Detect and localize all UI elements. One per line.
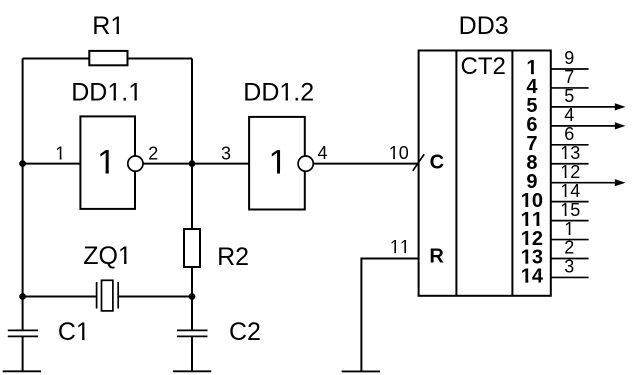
- svg-text:11: 11: [390, 237, 410, 257]
- inversion bubble DD1.2 output pin 4: [298, 156, 313, 171]
- svg-text:C1: C1: [58, 318, 90, 346]
- svg-text:4: 4: [564, 105, 574, 125]
- DD3 output row 14 (pin 3): [521, 257, 589, 288]
- DD3 output row 1 (pin 9): [526, 48, 588, 79]
- DD3 output row 6 (pin 4): [526, 105, 625, 136]
- svg-text:R: R: [429, 246, 444, 268]
- svg-text:13: 13: [560, 143, 580, 163]
- svg-text:R2: R2: [217, 243, 249, 271]
- ground (C1): [3, 370, 41, 372]
- svg-text:1: 1: [97, 144, 116, 182]
- svg-text:DD1.1: DD1.1: [71, 78, 142, 106]
- DD3 output row 5 (pin 5): [526, 86, 625, 117]
- wire DD1.2 pin 4 to DD3 pin 10 C input: [313, 163, 418, 165]
- capacitor C2: [177, 318, 261, 371]
- DD3 output row 9 (pin 12): [526, 162, 625, 193]
- svg-text:CT2: CT2: [461, 53, 506, 80]
- svg-text:1: 1: [268, 144, 287, 182]
- wire crystal net right: [118, 296, 192, 298]
- svg-text:1: 1: [564, 219, 574, 239]
- svg-text:5: 5: [564, 86, 574, 106]
- DD3 output row 10 (pin 14): [521, 181, 589, 212]
- svg-text:10: 10: [389, 143, 409, 163]
- svg-text:12: 12: [560, 162, 580, 182]
- logic gate DD1.2 (inverter): [243, 78, 314, 209]
- svg-text:2: 2: [148, 144, 158, 164]
- svg-text:3: 3: [564, 257, 574, 277]
- junction node: right rail / gate output net: [189, 160, 196, 167]
- svg-text:3: 3: [221, 144, 231, 164]
- svg-text:DD3: DD3: [459, 12, 509, 40]
- svg-text:6: 6: [564, 124, 574, 144]
- counter DD3 box: [419, 51, 551, 296]
- svg-text:ZQ1: ZQ1: [83, 242, 132, 270]
- svg-text:2: 2: [564, 238, 574, 258]
- wire DD3 R pin 11 to ground: [361, 259, 418, 371]
- wire top net through R1: [23, 58, 192, 60]
- DD3 output row 8 (pin 13): [526, 143, 588, 174]
- capacitor C1: [8, 318, 90, 371]
- svg-text:1: 1: [55, 143, 65, 163]
- inversion bubble DD1.1 output pin 2: [128, 156, 143, 171]
- crystal resonator ZQ1: [83, 242, 132, 311]
- junction node: left rail / input net: [19, 160, 26, 167]
- DD3 output row 11 (pin 15): [521, 200, 589, 231]
- wire crystal net left: [23, 296, 97, 298]
- svg-text:C: C: [430, 152, 444, 174]
- dynamic input slash on C pin: [413, 154, 424, 171]
- svg-text:R1: R1: [92, 12, 124, 40]
- ground (DD3 R pin): [342, 370, 380, 372]
- logic gate DD1.1 (inverter): [71, 78, 142, 209]
- svg-text:9: 9: [564, 48, 574, 68]
- DD3 output row 4 (pin 7): [526, 67, 588, 98]
- svg-text:4: 4: [318, 143, 328, 163]
- svg-text:DD1.2: DD1.2: [243, 78, 314, 106]
- DD3 output row 7 (pin 6): [526, 124, 588, 155]
- DD3 designator: [459, 12, 509, 40]
- DD3 output row 13 (pin 2): [521, 238, 589, 269]
- svg-text:14: 14: [521, 266, 544, 288]
- wire right rail: [191, 59, 193, 331]
- wire left rail: [22, 59, 24, 331]
- svg-text:15: 15: [560, 200, 580, 220]
- CT2 function label: [461, 53, 506, 80]
- ground (C2): [173, 370, 211, 372]
- svg-text:14: 14: [560, 181, 580, 201]
- junction node: left rail / crystal net: [19, 293, 26, 300]
- resistor R1: [89, 12, 127, 65]
- junction node: right rail / crystal net: [189, 293, 196, 300]
- wire DD1.1 pin 2 to DD1.2 pin 3: [143, 163, 249, 165]
- wire input net to DD1.1 pin 1: [23, 163, 81, 165]
- resistor R2: [184, 229, 249, 271]
- svg-text:7: 7: [564, 67, 574, 87]
- DD3 output row 12 (pin 1): [521, 219, 589, 250]
- svg-text:C2: C2: [229, 318, 261, 346]
